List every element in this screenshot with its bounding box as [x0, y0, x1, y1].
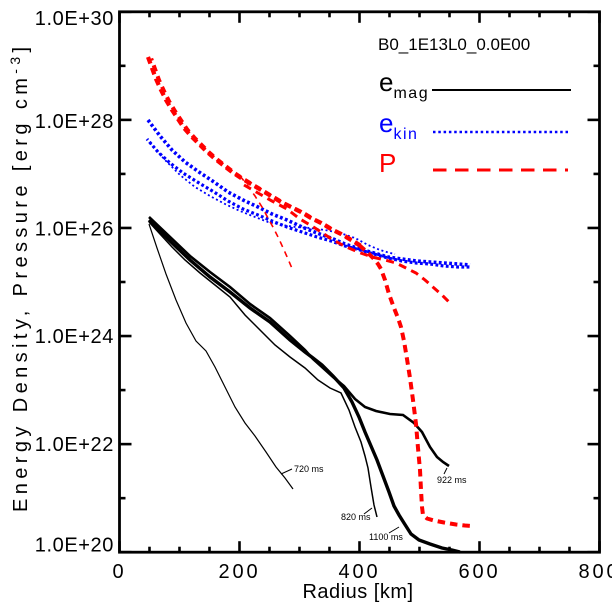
svg-text:Energy Density, Pressure [erg: Energy Density, Pressure [erg cm-3]: [7, 42, 32, 512]
plot frame: [120, 12, 600, 552]
svg-text:922 ms: 922 ms: [437, 475, 467, 485]
curve e_mag 922 ms: [149, 217, 449, 466]
curve e_mag 820 ms: [149, 222, 377, 517]
curve e_mag 1100 ms: [149, 220, 460, 552]
curve P bundle second strand: [151, 59, 362, 247]
svg-text:200: 200: [218, 561, 260, 583]
annotation 922 ms: [444, 468, 447, 474]
svg-text:1.0E+28: 1.0E+28: [35, 111, 114, 133]
svg-text:P: P: [379, 148, 396, 178]
svg-text:400: 400: [338, 561, 380, 583]
curve e_kin upper: [148, 120, 470, 265]
axis ticks: [120, 12, 600, 552]
svg-text:600: 600: [458, 561, 500, 583]
svg-text:720 ms: 720 ms: [294, 464, 324, 474]
annotation 1100 ms: [389, 527, 399, 533]
curve P gentle: [244, 185, 449, 302]
curve P 720 thin: [240, 176, 293, 271]
svg-text:0: 0: [112, 561, 126, 583]
svg-text:1.0E+26: 1.0E+26: [35, 219, 114, 241]
curve e_kin lower: [147, 139, 470, 267]
curve e_kin thin: [150, 143, 395, 254]
svg-text:Radius [km]: Radius [km]: [302, 581, 413, 603]
svg-text:1.0E+30: 1.0E+30: [35, 8, 114, 30]
svg-text:800: 800: [578, 561, 612, 583]
svg-text:1.0E+20: 1.0E+20: [35, 535, 114, 557]
svg-text:1100 ms: 1100 ms: [369, 532, 403, 542]
annotation 720 ms: [281, 469, 292, 474]
annotation 820 ms: [364, 508, 372, 514]
svg-text:B0_1E13L0_0.0E00: B0_1E13L0_0.0E00: [378, 35, 530, 54]
svg-text:1.0E+24: 1.0E+24: [35, 326, 114, 348]
curve P plunge: [359, 245, 472, 526]
svg-text:820 ms: 820 ms: [341, 512, 371, 522]
curve P bundle: [148, 57, 359, 245]
svg-text:1.0E+22: 1.0E+22: [35, 434, 114, 456]
curve e_mag 720 ms: [149, 224, 293, 489]
